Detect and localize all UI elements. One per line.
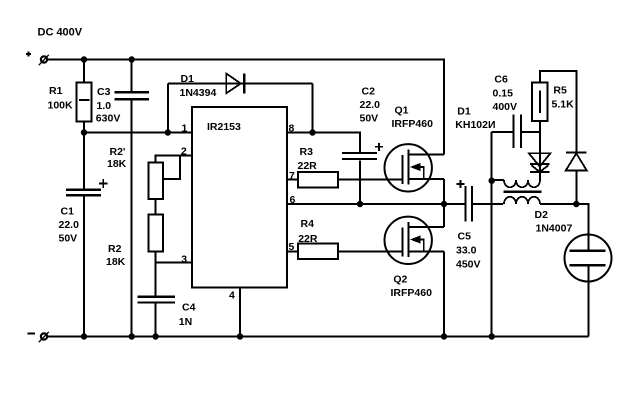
svg-text:C4: C4 (182, 301, 196, 313)
svg-text:22.0: 22.0 (59, 219, 80, 231)
svg-text:50V: 50V (59, 232, 78, 244)
svg-text:0.15: 0.15 (493, 87, 514, 99)
svg-text:Q1: Q1 (395, 104, 409, 116)
svg-text:630V: 630V (96, 113, 121, 125)
svg-text:33.0: 33.0 (456, 245, 477, 257)
svg-text:6: 6 (290, 194, 296, 206)
svg-text:R4: R4 (301, 218, 315, 230)
svg-text:1N4394: 1N4394 (180, 87, 217, 99)
svg-text:1: 1 (182, 122, 188, 134)
svg-text:R5: R5 (553, 85, 567, 97)
svg-text:22R: 22R (298, 233, 318, 245)
svg-text:18K: 18K (107, 158, 127, 170)
svg-text:2: 2 (181, 146, 187, 158)
svg-text:C2: C2 (362, 85, 376, 97)
svg-text:C6: C6 (494, 73, 508, 85)
svg-text:D2: D2 (535, 209, 549, 221)
svg-text:50V: 50V (360, 112, 379, 124)
svg-text:400V: 400V (493, 101, 518, 113)
svg-text:450V: 450V (456, 259, 481, 271)
svg-text:KH102И: KH102И (455, 119, 495, 131)
svg-text:C1: C1 (61, 205, 75, 217)
svg-text:R2': R2' (110, 146, 126, 158)
svg-text:8: 8 (289, 122, 295, 134)
svg-text:22.0: 22.0 (360, 99, 381, 111)
svg-text:22R: 22R (298, 160, 318, 172)
svg-text:100K: 100K (48, 99, 74, 111)
svg-text:IRFP460: IRFP460 (392, 118, 434, 130)
svg-text:R1: R1 (49, 85, 63, 97)
svg-text:18K: 18K (106, 256, 126, 268)
svg-text:3: 3 (181, 253, 187, 265)
svg-text:7: 7 (289, 170, 295, 182)
svg-text:IR2153: IR2153 (207, 121, 241, 133)
svg-text:1N: 1N (179, 316, 192, 328)
svg-text:5.1K: 5.1K (552, 98, 575, 110)
svg-text:D1: D1 (457, 105, 471, 117)
svg-text:5: 5 (289, 241, 295, 253)
svg-text:1.0: 1.0 (97, 100, 112, 112)
svg-text:IRFP460: IRFP460 (391, 287, 433, 299)
svg-text:DC 400V: DC 400V (38, 26, 83, 38)
svg-text:R3: R3 (300, 146, 314, 158)
svg-text:Q2: Q2 (393, 274, 407, 286)
svg-text:1N4007: 1N4007 (536, 223, 573, 235)
svg-text:R2: R2 (108, 243, 122, 255)
svg-text:D1: D1 (181, 73, 195, 85)
svg-text:C5: C5 (458, 231, 472, 243)
svg-text:C3: C3 (97, 86, 111, 98)
svg-text:4: 4 (229, 290, 235, 302)
